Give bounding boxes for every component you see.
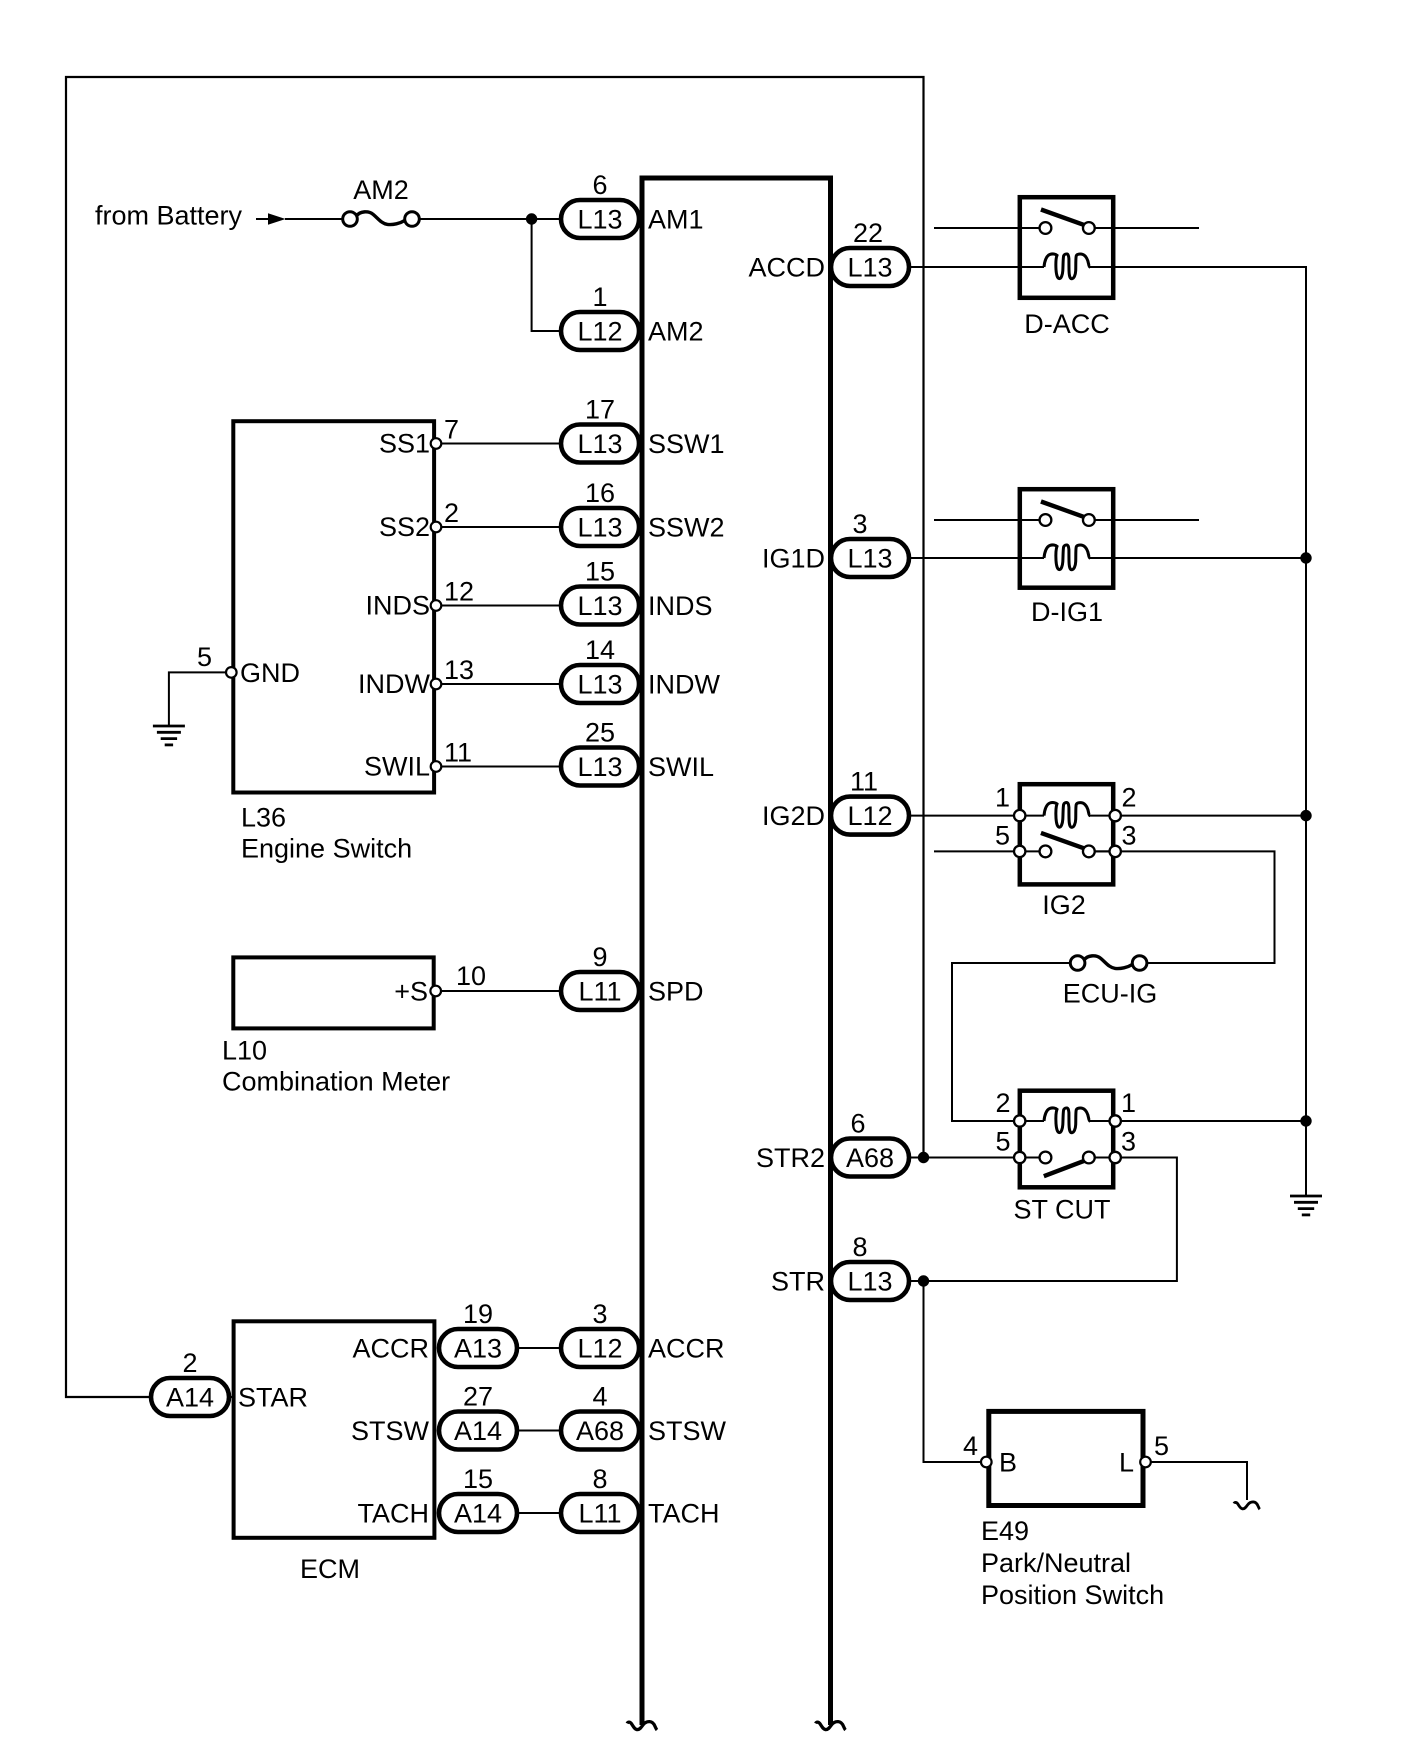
svg-text:A13: A13 — [454, 1334, 502, 1364]
svg-text:10: 10 — [456, 961, 486, 991]
svg-text:16: 16 — [585, 478, 615, 508]
svg-text:IG2: IG2 — [1042, 890, 1086, 920]
svg-text:STR: STR — [771, 1267, 825, 1297]
connector L13 pin 8 (STR) — [831, 1262, 909, 1300]
wire STSW row — [517, 1430, 561, 1432]
wire IG2 pin5 stub — [934, 850, 1116, 852]
svg-text:3: 3 — [852, 509, 867, 539]
connector L11 pin 8 (TACH switch side) — [561, 1494, 639, 1532]
svg-text:11: 11 — [850, 767, 878, 797]
ST CUT coil — [1044, 1108, 1090, 1133]
E49 Park/Neutral Position Switch box — [989, 1411, 1143, 1505]
svg-text:INDW: INDW — [358, 669, 430, 699]
svg-text:4: 4 — [963, 1431, 978, 1461]
connector L12 pin 1 (AM2) — [561, 312, 639, 350]
break squiggle right leg — [816, 1722, 846, 1730]
D-IG1 switch — [1040, 502, 1095, 526]
svg-text:L13: L13 — [577, 670, 622, 700]
svg-text:8: 8 — [852, 1232, 867, 1262]
connector L13 pin 14 (INDW) — [561, 665, 639, 703]
D-IG1 coil — [1044, 545, 1090, 570]
svg-text:2: 2 — [444, 498, 459, 528]
svg-text:STSW: STSW — [648, 1416, 727, 1446]
svg-text:19: 19 — [463, 1299, 493, 1329]
svg-text:Combination Meter: Combination Meter — [222, 1067, 450, 1097]
svg-text:L12: L12 — [577, 317, 622, 347]
svg-text:SPD: SPD — [648, 977, 704, 1007]
svg-text:ACCR: ACCR — [648, 1334, 725, 1364]
junction dot AM2 split — [526, 213, 537, 224]
svg-text:25: 25 — [585, 718, 615, 748]
connector A13 pin 19 (ACCR ECM side) — [439, 1329, 517, 1367]
svg-text:L12: L12 — [847, 801, 892, 831]
svg-text:SWIL: SWIL — [364, 752, 430, 782]
svg-text:D-ACC: D-ACC — [1024, 309, 1110, 339]
svg-text:STAR: STAR — [238, 1383, 308, 1413]
svg-text:15: 15 — [585, 557, 615, 587]
svg-text:ACCR: ACCR — [352, 1334, 429, 1364]
ST CUT switch — [1040, 1152, 1095, 1177]
ST CUT pin 3 — [1110, 1152, 1121, 1163]
svg-text:8: 8 — [592, 1464, 607, 1494]
wire INDW — [436, 683, 561, 685]
svg-text:5: 5 — [1154, 1431, 1169, 1461]
svg-text:ACCD: ACCD — [748, 253, 825, 283]
connector L13 pin 16 (SSW2) — [561, 508, 639, 546]
break squiggle left leg — [627, 1722, 657, 1730]
svg-text:ECU-IG: ECU-IG — [1063, 979, 1158, 1009]
svg-text:2: 2 — [182, 1348, 197, 1378]
fuse ECU-IG — [1070, 956, 1147, 971]
relay IG2 box — [1020, 784, 1113, 884]
IG2 coil — [1044, 803, 1090, 828]
wire ACCD to D-ACC coil and right riser — [908, 267, 1306, 1195]
junction dot ST CUT coil to riser — [1300, 1115, 1311, 1126]
svg-text:12: 12 — [444, 577, 474, 607]
IG2 pin 1 — [1014, 810, 1025, 821]
svg-text:AM2: AM2 — [353, 175, 409, 205]
wire STAR row — [151, 1396, 233, 1398]
svg-text:17: 17 — [585, 395, 615, 425]
ground (engine switch) — [153, 726, 185, 745]
junction dot STR — [918, 1275, 929, 1286]
svg-text:5: 5 — [995, 820, 1010, 850]
svg-text:ST CUT: ST CUT — [1013, 1195, 1110, 1225]
break squiggle E49 lead — [1234, 1502, 1260, 1509]
wire IG2D to IG2 pin1, pin2 to riser — [908, 815, 1306, 817]
IG2 switch — [1040, 833, 1095, 857]
connector L13 pin 17 (SSW1) — [561, 425, 639, 463]
svg-text:A14: A14 — [454, 1416, 502, 1446]
IG2 pin 2 — [1110, 810, 1121, 821]
wire SWIL — [436, 766, 561, 768]
svg-text:11: 11 — [444, 738, 472, 768]
svg-text:L36: L36 — [241, 803, 286, 833]
svg-text:TACH: TACH — [648, 1499, 720, 1529]
connector L13 pin 15 (INDS) — [561, 587, 639, 625]
D-ACC switch — [1040, 210, 1095, 234]
wire SS2 to SSW2 — [436, 526, 561, 528]
pin SS1 (7) — [431, 438, 442, 449]
arrow: battery feed — [268, 213, 286, 224]
svg-text:SWIL: SWIL — [648, 752, 714, 782]
svg-text:L13: L13 — [577, 205, 622, 235]
IG2 pin 5 — [1014, 846, 1025, 857]
svg-text:A68: A68 — [576, 1416, 624, 1446]
svg-text:B: B — [999, 1448, 1017, 1478]
svg-text:AM2: AM2 — [648, 317, 704, 347]
svg-text:2: 2 — [1122, 783, 1137, 813]
svg-text:Park/Neutral: Park/Neutral — [981, 1548, 1131, 1578]
svg-text:AM1: AM1 — [648, 205, 704, 235]
svg-text:INDW: INDW — [648, 670, 720, 700]
svg-text:E49: E49 — [981, 1516, 1029, 1546]
svg-text:22: 22 — [853, 218, 883, 248]
wire STR down to E49 B pin — [924, 1281, 982, 1462]
ground (riser) — [1290, 1196, 1322, 1215]
svg-text:1: 1 — [1121, 1088, 1136, 1118]
svg-text:D-IG1: D-IG1 — [1031, 597, 1103, 627]
svg-text:3: 3 — [592, 1299, 607, 1329]
svg-text:+S: +S — [394, 977, 428, 1007]
svg-text:L13: L13 — [847, 253, 892, 283]
svg-text:L13: L13 — [577, 429, 622, 459]
svg-text:L11: L11 — [578, 1499, 621, 1529]
svg-text:SS2: SS2 — [379, 512, 430, 542]
connector A14 pin 15 (TACH ECM side) — [439, 1494, 517, 1532]
svg-text:L13: L13 — [577, 752, 622, 782]
wire: arrow to fuse — [285, 218, 343, 220]
connector L13 pin 6 (AM1) — [561, 200, 639, 238]
svg-text:SS1: SS1 — [379, 429, 430, 459]
svg-text:L13: L13 — [847, 1267, 892, 1297]
svg-text:L10: L10 — [222, 1036, 267, 1066]
svg-text:A14: A14 — [454, 1499, 502, 1529]
relay D-IG1 box — [1020, 489, 1113, 588]
IG2 pin 3 — [1110, 846, 1121, 857]
svg-text:L13: L13 — [847, 544, 892, 574]
svg-text:6: 6 — [850, 1109, 865, 1139]
svg-text:3: 3 — [1122, 820, 1137, 850]
pin +S (10) — [430, 986, 441, 997]
junction dot IG2 to riser — [1300, 810, 1311, 821]
ignition switch connector block (tall open rectangle) — [640, 176, 834, 181]
svg-text:15: 15 — [463, 1464, 493, 1494]
wire ACCR row — [517, 1347, 561, 1349]
pin SS2 (2) — [431, 522, 442, 533]
wire ST CUT pin3 to STR — [908, 1158, 1177, 1282]
wire IG1D to D-IG1 coil — [908, 557, 1306, 559]
E49 pin B (4) — [981, 1457, 992, 1468]
pin INDW (13) — [431, 679, 442, 690]
ECM box — [234, 1321, 435, 1538]
svg-text:13: 13 — [444, 655, 474, 685]
E49 pin L (5) — [1140, 1457, 1151, 1468]
connector L11 pin 9 (SPD) — [561, 972, 639, 1010]
wire ST CUT pin1 to riser — [1090, 1120, 1306, 1122]
connector L12 pin 11 (IG2D) — [831, 797, 909, 835]
wire TACH row — [517, 1512, 561, 1514]
junction dot D-IG1 coil to riser — [1300, 552, 1311, 563]
connector A68 pin 6 (STR2) — [831, 1139, 909, 1177]
L10 Combination Meter box — [233, 957, 433, 1028]
connector L13 pin 3 (IG1D) — [831, 539, 909, 577]
svg-text:L11: L11 — [578, 977, 621, 1007]
ST CUT pin 1 — [1110, 1115, 1121, 1126]
wire: fuse to junction and to AM1 — [419, 218, 561, 220]
svg-text:L13: L13 — [577, 591, 622, 621]
svg-text:A14: A14 — [166, 1383, 214, 1413]
wire GND to ground — [169, 672, 226, 726]
wire STR2 to ST CUT pin5 — [908, 1157, 1116, 1159]
wire: from Battery lead — [256, 218, 268, 220]
svg-text:27: 27 — [463, 1382, 493, 1412]
svg-text:Position Switch: Position Switch — [981, 1580, 1164, 1610]
fuse AM2 — [343, 212, 420, 227]
svg-text:5: 5 — [995, 1127, 1010, 1157]
svg-text:IG1D: IG1D — [762, 544, 825, 574]
wire ECU-IG to ST CUT pin2 — [952, 963, 1071, 1121]
wire D-ACC switch stubs — [934, 227, 1199, 229]
wire D-IG1 switch stubs — [934, 519, 1199, 521]
svg-text:14: 14 — [585, 635, 615, 665]
svg-text:IG2D: IG2D — [762, 801, 825, 831]
svg-text:INDS: INDS — [365, 591, 430, 621]
relay D-ACC box — [1020, 197, 1113, 298]
svg-text:Engine Switch: Engine Switch — [241, 834, 412, 864]
connector L13 pin 22 (ACCD) — [831, 248, 909, 286]
svg-text:4: 4 — [592, 1382, 607, 1412]
relay ST CUT box — [1020, 1091, 1113, 1188]
svg-text:2: 2 — [995, 1088, 1010, 1118]
svg-text:SSW1: SSW1 — [648, 429, 725, 459]
svg-text:3: 3 — [1121, 1127, 1136, 1157]
wire E49 L to break — [1151, 1462, 1247, 1500]
wire +S to SPD — [436, 990, 561, 992]
svg-text:from Battery: from Battery — [95, 201, 243, 231]
svg-text:TACH: TACH — [358, 1499, 430, 1529]
svg-text:1: 1 — [995, 783, 1010, 813]
pin GND (5) — [226, 667, 237, 678]
svg-text:INDS: INDS — [648, 591, 713, 621]
svg-text:L12: L12 — [577, 1334, 622, 1364]
svg-text:ECM: ECM — [300, 1554, 360, 1584]
D-ACC coil — [1044, 254, 1090, 279]
svg-text:7: 7 — [444, 415, 459, 445]
svg-text:9: 9 — [592, 942, 607, 972]
junction dot STR2 riser end — [918, 1152, 929, 1163]
connector L13 pin 25 (SWIL) — [561, 748, 639, 786]
pin SWIL (11) — [431, 761, 442, 772]
svg-text:STSW: STSW — [351, 1416, 430, 1446]
ST CUT pin 2 — [1014, 1115, 1025, 1126]
connector A14 pin 2 (STAR) — [151, 1378, 229, 1416]
svg-text:6: 6 — [592, 170, 607, 200]
svg-text:SSW2: SSW2 — [648, 513, 725, 543]
svg-text:L13: L13 — [577, 513, 622, 543]
svg-text:L: L — [1119, 1448, 1134, 1478]
L36 Engine Switch box — [233, 421, 434, 792]
svg-text:5: 5 — [197, 642, 212, 672]
wire IG2 pin3 to ECU-IG — [1095, 851, 1275, 963]
svg-text:1: 1 — [592, 282, 607, 312]
svg-text:STR2: STR2 — [756, 1143, 825, 1173]
pin INDS (12) — [431, 600, 442, 611]
wire: STAR loop frame (left, top, right) — [66, 77, 924, 1397]
wire INDS — [436, 605, 561, 607]
svg-text:GND: GND — [240, 658, 300, 688]
wire: junction down to AM2 pin — [532, 219, 561, 331]
ST CUT pin 5 — [1014, 1152, 1025, 1163]
connector A14 pin 27 (STSW ECM side) — [439, 1412, 517, 1450]
wire SS1 to SSW1 — [436, 443, 561, 445]
connector L12 pin 3 (ACCR switch side) — [561, 1329, 639, 1367]
svg-text:A68: A68 — [846, 1143, 894, 1173]
connector A68 pin 4 (STSW switch side) — [561, 1412, 639, 1450]
